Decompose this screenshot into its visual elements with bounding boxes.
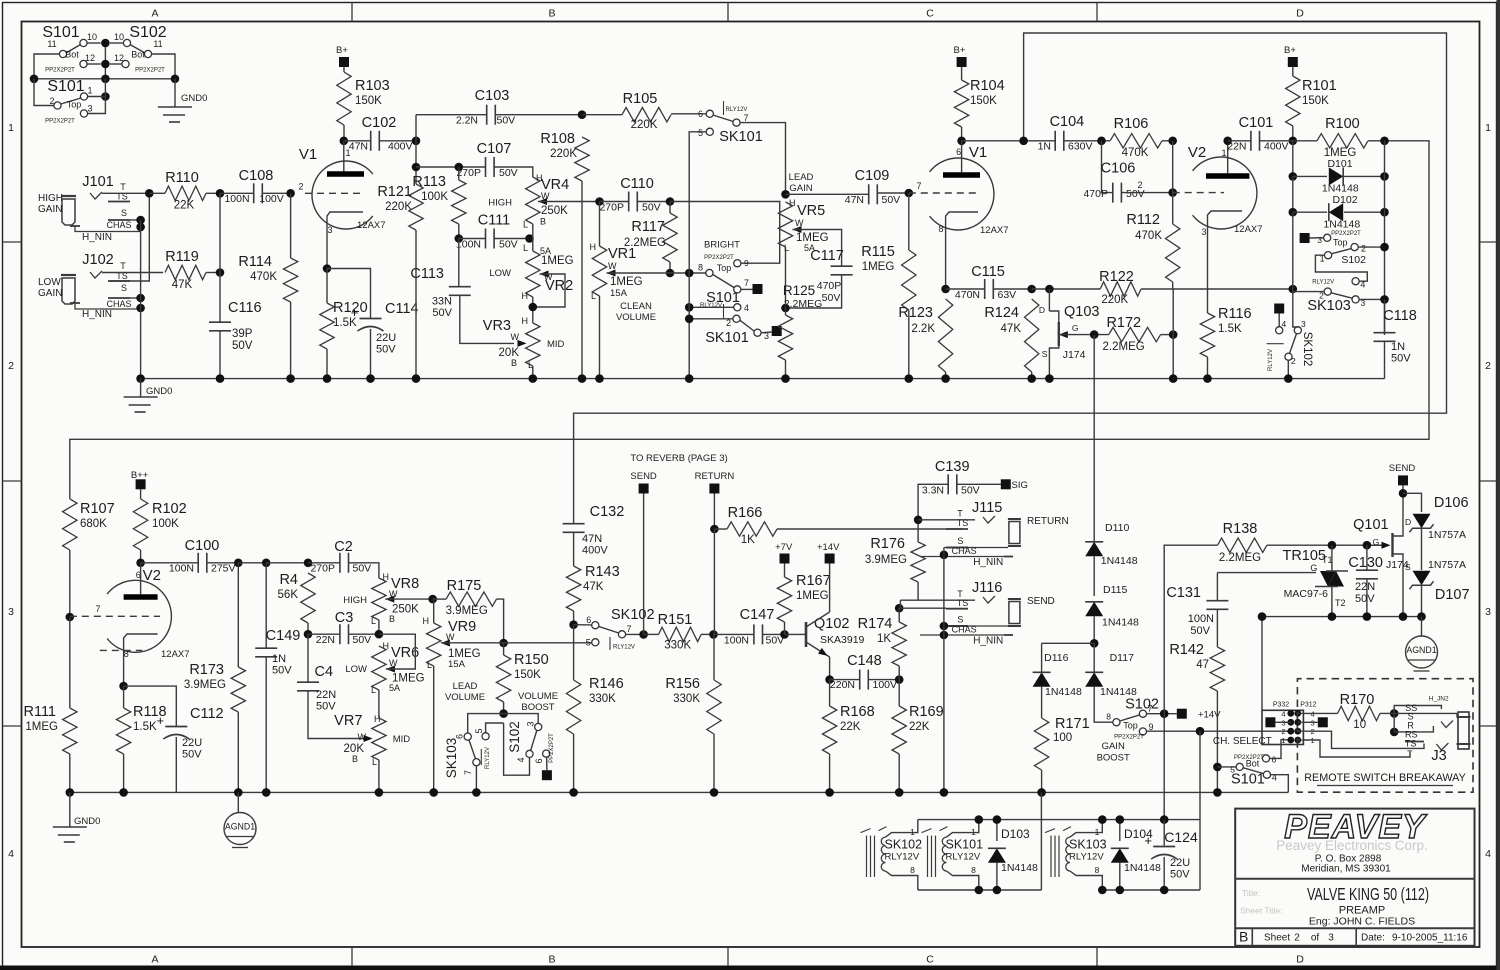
svg-text:3.9MEG: 3.9MEG: [184, 679, 226, 691]
svg-text:S: S: [121, 208, 127, 218]
resistor R156: [713, 634, 715, 680]
svg-text:J101: J101: [82, 174, 113, 190]
resistor R116: [1207, 312, 1209, 313]
svg-text:L: L: [784, 243, 789, 253]
resistor R111: [69, 617, 71, 708]
svg-text:D107: D107: [1435, 587, 1470, 603]
svg-text:C149: C149: [266, 628, 301, 644]
svg-text:Top: Top: [717, 263, 732, 273]
wire R110/R119 junction vertical: [219, 193, 221, 272]
wire right coil group drive line: [1199, 731, 1201, 890]
svg-text:+: +: [1144, 833, 1152, 848]
svg-text:100: 100: [1053, 732, 1072, 744]
svg-text:TS: TS: [957, 598, 969, 608]
ground AGND1 (send): [1421, 617, 1423, 636]
svg-text:50V: 50V: [1170, 869, 1190, 881]
svg-text:1: 1: [1485, 122, 1491, 134]
svg-text:H: H: [590, 242, 597, 252]
svg-text:VR7: VR7: [334, 713, 362, 729]
svg-text:3.3N: 3.3N: [922, 485, 944, 497]
capacitor C111 line: [459, 238, 486, 240]
resistor R103: [343, 67, 345, 72]
svg-text:R112: R112: [1126, 212, 1160, 228]
svg-text:R150: R150: [514, 652, 549, 668]
wire P312 pin2 to J3 TS: [1303, 731, 1424, 748]
capacitor C108: [220, 192, 254, 194]
svg-text:H_NIN: H_NIN: [973, 557, 1003, 568]
svg-text:22K: 22K: [840, 721, 861, 733]
resistor R4: [301, 573, 315, 623]
resistor R112: [1172, 141, 1174, 224]
svg-text:56K: 56K: [278, 589, 299, 601]
ground GND0 (input): [140, 379, 142, 397]
wire J115 TS line: [777, 528, 962, 530]
resistor R142: [1210, 647, 1224, 691]
svg-text:V2: V2: [1188, 144, 1206, 161]
svg-text:C104: C104: [1050, 114, 1085, 130]
svg-text:11: 11: [47, 39, 56, 49]
svg-text:400V: 400V: [1264, 141, 1289, 153]
resistor R120: [326, 269, 328, 304]
svg-text:GAIN: GAIN: [38, 288, 62, 299]
svg-text:R105: R105: [623, 91, 658, 107]
svg-text:4: 4: [516, 757, 526, 762]
svg-text:SK103: SK103: [1307, 298, 1351, 314]
svg-text:1: 1: [1281, 736, 1285, 745]
svg-text:B: B: [540, 217, 546, 227]
svg-text:2: 2: [1291, 356, 1296, 366]
wire V2 cathode: [1208, 211, 1243, 312]
svg-text:P332: P332: [1273, 702, 1289, 709]
svg-text:R114: R114: [238, 254, 272, 270]
svg-text:G: G: [1072, 323, 1079, 333]
capacitor C132: [563, 523, 585, 525]
svg-text:100V: 100V: [873, 679, 898, 691]
svg-text:330K: 330K: [664, 640, 691, 652]
svg-text:R117: R117: [631, 219, 665, 235]
wire x=416 vertical (C103 line to bus): [415, 115, 417, 184]
svg-text:3: 3: [327, 225, 332, 235]
terminal square (P312 pin3): [1318, 717, 1328, 727]
svg-text:D103: D103: [1001, 827, 1030, 841]
svg-text:50V: 50V: [353, 634, 372, 646]
svg-text:4: 4: [1281, 709, 1285, 718]
resistor R118: [123, 686, 125, 708]
svg-text:GND0: GND0: [181, 93, 207, 104]
wire TR105 gate line: [1217, 572, 1316, 574]
capacitor C109: [786, 193, 869, 195]
svg-text:RLY12V: RLY12V: [946, 852, 981, 863]
svg-text:Bot: Bot: [65, 50, 79, 60]
svg-text:RETURN: RETURN: [1027, 516, 1069, 527]
svg-text:7: 7: [744, 278, 749, 288]
svg-text:L: L: [371, 616, 376, 626]
svg-text:C111: C111: [478, 213, 511, 229]
svg-text:T: T: [120, 261, 126, 271]
svg-text:8: 8: [1095, 865, 1100, 875]
svg-text:1N4148: 1N4148: [1045, 686, 1082, 698]
svg-text:3: 3: [1317, 235, 1322, 245]
relay coil SK102: [866, 836, 868, 877]
svg-text:T: T: [957, 509, 963, 519]
svg-text:1MEG: 1MEG: [541, 255, 574, 267]
resistor R105: [582, 114, 622, 116]
svg-text:2.2MEG: 2.2MEG: [1103, 341, 1145, 353]
relay coil SK101: [927, 836, 929, 877]
svg-text:+14V: +14V: [817, 542, 840, 553]
svg-text:1MEG: 1MEG: [862, 261, 895, 273]
svg-text:L: L: [523, 243, 528, 253]
svg-text:1.5K: 1.5K: [133, 721, 157, 733]
svg-text:HIGH: HIGH: [343, 595, 367, 606]
svg-text:680K: 680K: [80, 518, 107, 530]
svg-text:C110: C110: [620, 176, 654, 192]
svg-text:S: S: [121, 283, 127, 293]
svg-text:6: 6: [534, 758, 544, 763]
svg-text:7: 7: [744, 113, 749, 123]
svg-text:33N: 33N: [432, 296, 452, 308]
svg-text:B: B: [352, 754, 358, 764]
svg-text:C148: C148: [847, 653, 882, 669]
capacitor C124 (electrolytic): [1163, 714, 1165, 820]
svg-text:CHAS: CHAS: [952, 625, 977, 635]
wire S-block bus: [34, 78, 175, 80]
svg-text:R138: R138: [1223, 521, 1258, 537]
svg-text:J115: J115: [972, 500, 1002, 516]
svg-text:P312: P312: [1300, 702, 1316, 709]
svg-text:+7V: +7V: [775, 542, 793, 553]
svg-text:100V: 100V: [259, 193, 284, 205]
svg-text:22K: 22K: [174, 200, 195, 212]
svg-text:H: H: [522, 316, 529, 326]
svg-text:T2: T2: [1335, 598, 1346, 608]
diode D106 (zener 1N757A): [1403, 493, 1422, 512]
svg-text:G: G: [1310, 563, 1317, 573]
svg-text:VOLUME: VOLUME: [518, 691, 558, 702]
svg-text:1: 1: [1221, 148, 1226, 158]
svg-text:47K: 47K: [583, 581, 604, 593]
svg-text:SK102: SK102: [611, 607, 655, 623]
resistor R168: [822, 706, 836, 754]
svg-text:3: 3: [1485, 606, 1491, 618]
svg-text:150K: 150K: [1302, 95, 1329, 107]
svg-text:1: 1: [8, 122, 14, 134]
svg-text:1N4148: 1N4148: [1323, 219, 1360, 231]
svg-text:1MEG: 1MEG: [610, 276, 643, 288]
svg-text:100K: 100K: [152, 518, 179, 530]
svg-text:R146: R146: [589, 676, 624, 692]
resistor R124: [1027, 285, 1036, 294]
svg-text:VR2: VR2: [545, 278, 573, 294]
svg-text:CH. SELECT: CH. SELECT: [1213, 736, 1272, 747]
svg-text:Sheet Title:: Sheet Title:: [1240, 906, 1283, 916]
capacitor C139: [918, 484, 948, 520]
svg-text:S: S: [1042, 349, 1048, 359]
wire coil rails (right group): [1102, 889, 1200, 891]
svg-text:100N: 100N: [224, 193, 249, 205]
svg-text:D106: D106: [1434, 495, 1469, 511]
svg-text:H: H: [522, 291, 529, 301]
capacitor C106: [1102, 141, 1113, 193]
svg-text:4: 4: [8, 848, 14, 860]
svg-text:3: 3: [8, 606, 14, 618]
svg-text:4: 4: [744, 303, 749, 313]
wire R175 right to R150: [497, 599, 504, 643]
svg-text:C102: C102: [362, 115, 397, 131]
svg-text:Bot: Bot: [131, 50, 145, 60]
terminal B+ (R104): [957, 57, 967, 67]
svg-text:C132: C132: [590, 504, 625, 520]
wire RETURN vertical through R151 line: [713, 529, 715, 634]
wire VR4 bottom to C111 line: [532, 224, 534, 239]
svg-text:VOLUME: VOLUME: [616, 312, 656, 323]
wire input S/CHAS vertical to ground bus: [140, 220, 142, 379]
svg-text:RETURN: RETURN: [695, 471, 735, 482]
svg-text:T: T: [120, 182, 126, 192]
svg-text:J174: J174: [1063, 349, 1086, 361]
svg-text:6: 6: [698, 109, 703, 119]
svg-text:7: 7: [95, 604, 100, 614]
svg-text:TR105: TR105: [1282, 548, 1326, 564]
svg-text:470K: 470K: [250, 271, 277, 283]
svg-text:SK102: SK102: [885, 838, 923, 852]
svg-text:470P: 470P: [1083, 188, 1108, 200]
diode D116: [1042, 642, 1095, 644]
resistor R113: [458, 167, 460, 180]
switch S102 pin6 terminal: [543, 750, 550, 757]
svg-text:HIGH: HIGH: [38, 193, 63, 204]
svg-text:CHAS: CHAS: [952, 546, 977, 556]
svg-text:C100: C100: [185, 538, 220, 554]
wire ground line to P332 pin4: [1261, 617, 1263, 711]
svg-text:T1: T1: [1322, 555, 1333, 565]
svg-text:PP2X2P2T: PP2X2P2T: [45, 68, 75, 74]
diode D104: [1119, 820, 1121, 841]
svg-text:7: 7: [463, 770, 473, 775]
svg-text:1: 1: [910, 827, 915, 837]
wire gain boost gate vertical (to D110): [1093, 335, 1095, 542]
svg-text:50V: 50V: [499, 239, 518, 251]
svg-text:L: L: [523, 220, 528, 230]
svg-text:SKA3919: SKA3919: [820, 634, 865, 646]
svg-text:1N757A: 1N757A: [1428, 529, 1466, 541]
svg-text:C106: C106: [1101, 161, 1136, 177]
svg-text:of: of: [1311, 933, 1320, 944]
svg-text:R125: R125: [783, 283, 815, 298]
terminal B++: [136, 479, 146, 489]
svg-text:Peavey Electronics Corp.: Peavey Electronics Corp.: [1276, 838, 1428, 853]
svg-text:8: 8: [971, 865, 976, 875]
svg-text:12: 12: [114, 53, 124, 63]
svg-text:V1: V1: [299, 146, 317, 163]
capacitor C2: [308, 562, 340, 564]
svg-text:1N4148: 1N4148: [1322, 183, 1359, 195]
svg-text:50V: 50V: [272, 665, 292, 677]
svg-text:HIGH: HIGH: [488, 198, 512, 209]
svg-text:R102: R102: [152, 501, 187, 517]
svg-text:VR5: VR5: [797, 203, 825, 219]
potentiometer VR2 (LOW): [532, 239, 534, 252]
relay contact SK102 (ladder bottom): [1274, 304, 1284, 314]
svg-text:S: S: [1405, 562, 1411, 572]
svg-text:PP2X2P2T: PP2X2P2T: [549, 733, 555, 763]
svg-text:C115: C115: [971, 264, 1005, 280]
svg-text:S: S: [957, 536, 963, 546]
svg-text:150K: 150K: [970, 95, 997, 107]
svg-text:50V: 50V: [642, 202, 661, 214]
svg-text:5: 5: [474, 728, 484, 733]
svg-text:R100: R100: [1325, 116, 1360, 132]
ground GND0 (S-block): [174, 79, 176, 107]
svg-text:C124: C124: [1164, 829, 1198, 845]
svg-text:1: 1: [971, 827, 976, 837]
svg-text:VOLUME: VOLUME: [445, 692, 485, 703]
potentiometer VR1 (CLEAN VOLUME): [599, 202, 601, 247]
svg-text:H_NIN: H_NIN: [82, 232, 112, 243]
terminal SIG: [1001, 479, 1011, 489]
svg-text:GND0: GND0: [146, 386, 172, 397]
svg-text:8: 8: [938, 224, 943, 234]
svg-text:50V: 50V: [353, 563, 372, 575]
svg-text:22U: 22U: [376, 332, 396, 344]
svg-text:50V: 50V: [182, 749, 202, 761]
svg-text:TO REVERB (PAGE 3): TO REVERB (PAGE 3): [630, 453, 727, 464]
svg-text:R123: R123: [898, 305, 933, 321]
svg-text:D110: D110: [1105, 522, 1129, 534]
svg-text:C: C: [926, 954, 934, 966]
wire clean wiper line: [607, 272, 706, 274]
svg-text:6: 6: [956, 147, 961, 157]
capacitor C113: [458, 239, 460, 287]
resistor R123: [938, 299, 952, 372]
transistor Q102 (SKA3919): [785, 633, 807, 635]
svg-text:1MEG: 1MEG: [796, 590, 829, 602]
svg-text:Top: Top: [1123, 721, 1138, 731]
resistor R143: [573, 533, 575, 567]
zone ticks: [351, 3, 353, 22]
relay coil SK103: [1050, 836, 1052, 877]
svg-text:R173: R173: [189, 662, 224, 678]
svg-text:8: 8: [698, 263, 703, 273]
terminal B+ (R103): [339, 57, 349, 67]
svg-text:R169: R169: [909, 704, 944, 720]
svg-text:BRIGHT: BRIGHT: [704, 240, 740, 251]
svg-text:330K: 330K: [589, 693, 616, 705]
svg-text:GAIN: GAIN: [1102, 741, 1125, 752]
svg-text:RLY12V: RLY12V: [1268, 349, 1274, 371]
svg-text:L: L: [427, 660, 432, 670]
resistor R175: [446, 592, 496, 606]
svg-text:2: 2: [1294, 933, 1300, 944]
svg-text:7: 7: [627, 624, 632, 634]
resistor R108: [575, 137, 589, 181]
wire diode ladder right rail: [1384, 141, 1386, 335]
wire S-block center vertical: [104, 43, 106, 79]
wire S102 pin5 jumper to SK103: [486, 723, 504, 733]
svg-text:3: 3: [1328, 933, 1334, 944]
svg-text:220K: 220K: [1101, 294, 1128, 306]
svg-text:8: 8: [910, 865, 915, 875]
svg-text:Title:: Title:: [1242, 888, 1260, 898]
svg-text:100N: 100N: [169, 563, 194, 575]
switch S101/S102 row 12 contacts: [80, 60, 87, 67]
svg-text:D: D: [1039, 305, 1045, 315]
svg-text:100K: 100K: [421, 191, 448, 203]
svg-text:6: 6: [136, 570, 141, 580]
svg-text:C3: C3: [335, 610, 354, 626]
svg-text:1MEG: 1MEG: [25, 721, 58, 733]
svg-text:R122: R122: [1099, 269, 1134, 285]
wire VR5 wiper to C117: [793, 230, 842, 267]
svg-text:C101: C101: [1239, 115, 1274, 131]
svg-text:C: C: [926, 8, 934, 20]
svg-text:C131: C131: [1166, 585, 1201, 601]
svg-text:D101: D101: [1327, 158, 1352, 170]
svg-text:50V: 50V: [432, 307, 452, 319]
resistor R166: [727, 522, 777, 536]
svg-text:B: B: [548, 954, 555, 966]
svg-text:R142: R142: [1169, 642, 1204, 658]
svg-text:100N: 100N: [1188, 613, 1214, 625]
svg-text:400V: 400V: [582, 545, 608, 557]
ground AGND1 (R173): [237, 792, 239, 812]
svg-text:R103: R103: [355, 78, 390, 94]
wire Q103 source to bus: [1048, 372, 1050, 379]
svg-text:22N: 22N: [316, 634, 335, 646]
resistor R106: [1110, 134, 1162, 148]
wire J102 TS normalling from J101 tip: [110, 193, 149, 281]
terminal B+ (R101): [1288, 57, 1298, 67]
svg-text:LEAD: LEAD: [453, 681, 478, 692]
svg-text:22U: 22U: [1170, 857, 1190, 869]
svg-text:D116: D116: [1044, 652, 1068, 664]
capacitor C103: [416, 114, 487, 116]
svg-text:PP2X2P2T: PP2X2P2T: [704, 255, 734, 261]
svg-text:12: 12: [85, 53, 95, 63]
svg-text:R151: R151: [658, 612, 693, 628]
svg-text:SEND: SEND: [1389, 463, 1416, 474]
capacitor C102: [344, 140, 371, 142]
wire R112 junction vertical to bus: [1172, 289, 1174, 379]
svg-text:C118: C118: [1383, 308, 1417, 324]
svg-text:B: B: [1239, 929, 1248, 945]
svg-text:10: 10: [87, 32, 97, 42]
svg-text:3.9MEG: 3.9MEG: [446, 605, 488, 617]
svg-text:400V: 400V: [388, 141, 413, 153]
svg-text:L: L: [372, 757, 377, 767]
svg-text:+: +: [351, 305, 359, 320]
wire VR2 wiper loop: [533, 274, 565, 307]
potentiometer VR4 (HIGH): [526, 177, 540, 224]
svg-text:1N4148: 1N4148: [1102, 617, 1139, 629]
svg-text:50V: 50V: [1190, 625, 1210, 637]
wire S101 pin6 to P332 pin1: [1270, 740, 1291, 759]
svg-text:3: 3: [1201, 227, 1206, 237]
svg-text:R172: R172: [1106, 315, 1141, 331]
title block frame: [1235, 809, 1474, 946]
resistor R121: [409, 184, 423, 230]
svg-text:2: 2: [1281, 727, 1285, 736]
svg-text:5: 5: [586, 638, 591, 648]
svg-text:V1: V1: [969, 144, 987, 161]
svg-text:Eng: JOHN C. FIELDS: Eng: JOHN C. FIELDS: [1309, 916, 1415, 928]
svg-text:12AX7: 12AX7: [1234, 224, 1263, 235]
svg-text:220K: 220K: [550, 148, 577, 160]
svg-text:7: 7: [916, 181, 921, 191]
svg-text:10: 10: [1353, 719, 1366, 731]
svg-text:R115: R115: [861, 244, 895, 260]
capacitor C100: [141, 562, 199, 564]
